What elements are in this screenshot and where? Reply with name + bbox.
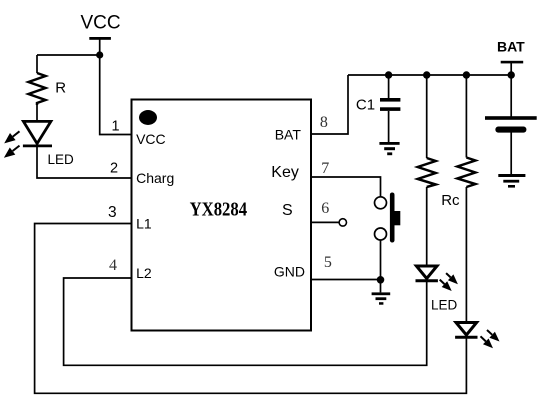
- svg-text:YX8284: YX8284: [190, 199, 248, 221]
- svg-text:8: 8: [320, 114, 328, 131]
- svg-text:L2: L2: [136, 265, 152, 281]
- svg-text:Charg: Charg: [136, 170, 174, 186]
- svg-text:BAT: BAT: [497, 39, 525, 55]
- svg-text:GND: GND: [274, 263, 305, 279]
- svg-text:LED: LED: [431, 297, 458, 312]
- svg-text:C1: C1: [356, 97, 375, 114]
- svg-text:VCC: VCC: [81, 12, 121, 33]
- svg-text:2: 2: [110, 161, 118, 177]
- svg-text:5: 5: [324, 254, 332, 271]
- svg-text:VCC: VCC: [136, 131, 166, 147]
- svg-text:BAT: BAT: [275, 127, 302, 143]
- svg-text:LED: LED: [48, 152, 75, 167]
- svg-text:R: R: [55, 80, 66, 97]
- svg-text:L1: L1: [136, 215, 152, 231]
- svg-text:Rc: Rc: [441, 192, 460, 209]
- svg-text:3: 3: [108, 204, 117, 221]
- svg-text:1: 1: [112, 119, 120, 135]
- svg-text:6: 6: [321, 200, 329, 217]
- svg-text:7: 7: [321, 160, 329, 177]
- svg-text:S: S: [282, 202, 293, 219]
- svg-text:Key: Key: [271, 164, 299, 181]
- svg-text:4: 4: [109, 257, 117, 274]
